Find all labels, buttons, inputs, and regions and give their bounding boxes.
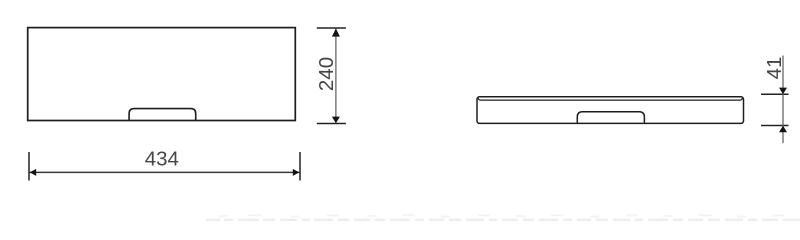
svg-text:434: 434 (145, 148, 179, 171)
svg-text:41: 41 (763, 57, 786, 80)
svg-text:240: 240 (315, 57, 338, 91)
